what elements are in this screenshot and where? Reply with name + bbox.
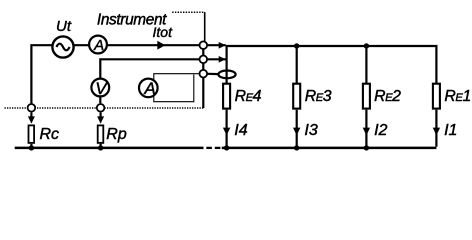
- svg-text:Ut: Ut: [56, 18, 72, 35]
- svg-text:I3: I3: [304, 122, 317, 139]
- svg-text:A: A: [143, 79, 155, 98]
- svg-text:Rp: Rp: [106, 126, 127, 143]
- svg-text:A: A: [93, 37, 104, 54]
- svg-text:I1: I1: [444, 122, 457, 139]
- svg-text:Itot: Itot: [153, 24, 174, 40]
- svg-text:I4: I4: [234, 122, 247, 139]
- svg-text:V: V: [95, 79, 108, 98]
- svg-text:I2: I2: [374, 122, 387, 139]
- svg-text:Rc: Rc: [40, 126, 60, 143]
